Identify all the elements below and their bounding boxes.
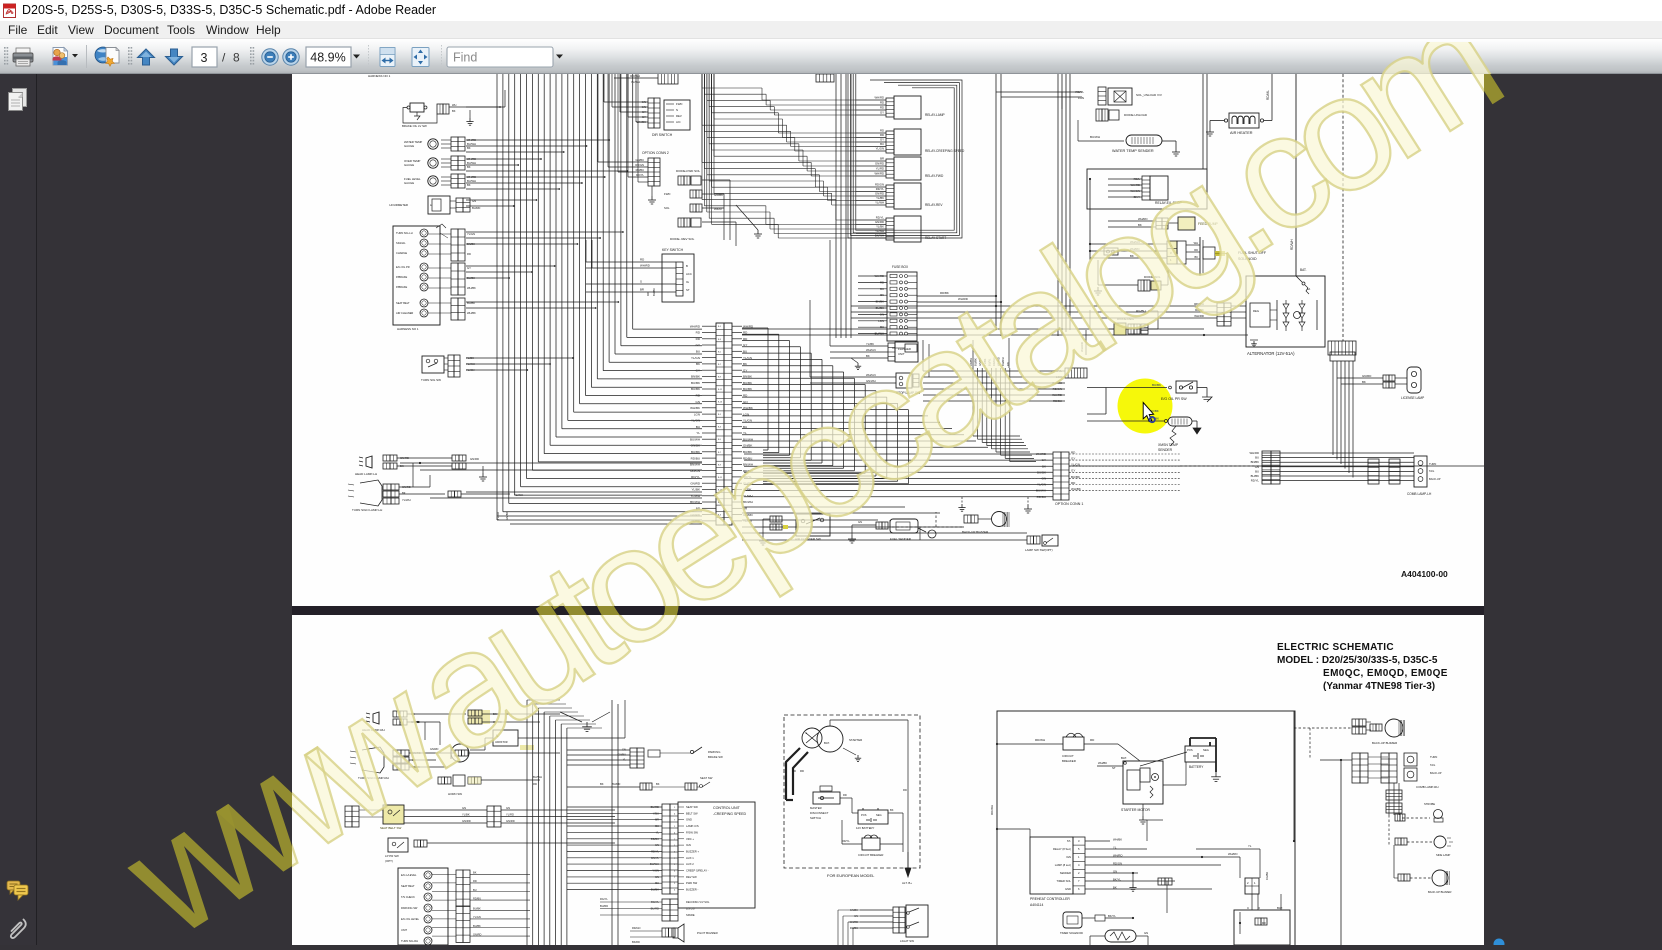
svg-text:BU/WH: BU/WH <box>1090 135 1100 139</box>
svg-text:DIODE-REG: DIODE-REG <box>1117 317 1135 321</box>
svg-text:AUX 2: AUX 2 <box>686 862 694 866</box>
svg-text:8-7: 8-7 <box>718 364 722 366</box>
svg-text:BU: BU <box>696 425 700 429</box>
svg-text:STOP LAMP SW: STOP LAMP SW <box>896 391 920 395</box>
svg-text:YL: YL <box>1248 844 1252 848</box>
svg-text:BRAKE SW: BRAKE SW <box>708 755 723 759</box>
svg-text:BU: BU <box>880 287 884 291</box>
svg-text:RELAY-FWD: RELAY-FWD <box>925 174 944 178</box>
svg-text:7: 7 <box>1078 879 1080 883</box>
svg-text:BK: BK <box>1138 223 1142 227</box>
svg-text:SOL_UNLOAD V/V: SOL_UNLOAD V/V <box>1136 93 1162 97</box>
svg-text:LICENSE LAMP: LICENSE LAMP <box>1401 396 1424 400</box>
svg-text:BK: BK <box>696 362 700 366</box>
svg-text:(OPT): (OPT) <box>385 859 393 863</box>
svg-text:RELAY (8 Sec): RELAY (8 Sec) <box>1053 847 1071 851</box>
svg-text:WH/RD: WH/RD <box>1194 314 1204 318</box>
svg-text:GN/RD: GN/RD <box>978 358 982 366</box>
svg-text:TIMER SOLENOID: TIMER SOLENOID <box>1060 931 1083 935</box>
svg-text:HEAD LAMP-RH: HEAD LAMP-RH <box>362 728 385 732</box>
svg-text:BK: BK <box>452 109 456 113</box>
svg-text:YL/GN: YL/GN <box>876 147 884 151</box>
svg-text:BREAKER: BREAKER <box>1062 759 1076 763</box>
svg-text:VRC +: VRC + <box>686 837 694 841</box>
svg-text:BU/WH: BU/WH <box>875 332 884 336</box>
svg-text:RD/L: RD/L <box>1134 177 1141 181</box>
svg-text:B: B <box>686 264 688 268</box>
svg-text:RD/GN: RD/GN <box>635 163 644 167</box>
svg-text:LGN: LGN <box>1078 96 1084 100</box>
svg-text:RG/BU: RG/BU <box>1136 309 1146 313</box>
svg-text:WH: WH <box>1194 241 1198 245</box>
svg-text:GY: GY <box>880 138 884 142</box>
svg-text:YL/GN: YL/GN <box>473 915 481 919</box>
svg-text:BU/BK: BU/BK <box>652 288 656 296</box>
svg-text:WH/RD: WH/RD <box>1131 183 1140 187</box>
svg-text:GND: GND <box>1065 887 1071 891</box>
svg-text:RD: RD <box>696 331 701 335</box>
svg-text:P/BRAKE: P/BRAKE <box>396 275 408 279</box>
svg-text:WH/RD: WH/RD <box>1228 852 1237 856</box>
svg-text:CIRCUIT BREAKER: CIRCUIT BREAKER <box>858 853 883 857</box>
svg-text:BU/BK: BU/BK <box>473 907 481 911</box>
svg-text:GAUGE: GAUGE <box>404 144 414 148</box>
svg-text:ST: ST <box>686 288 690 292</box>
svg-text:AIR CLEANER: AIR CLEANER <box>396 311 413 315</box>
svg-text:GN/RD: GN/RD <box>875 220 884 224</box>
svg-text:BK: BK <box>467 165 471 169</box>
svg-text:8-5: 8-5 <box>718 439 722 441</box>
svg-text:RD: RD <box>880 101 884 105</box>
svg-text:BAT.: BAT. <box>1277 906 1283 910</box>
svg-text:BACK-UP BUZZER: BACK-UP BUZZER <box>1428 890 1451 894</box>
svg-text:WH/RD: WH/RD <box>1036 452 1047 456</box>
svg-text:GY: GY <box>696 343 700 347</box>
svg-text:GN/BK: GN/BK <box>691 444 700 448</box>
svg-text:BU/BK: BU/BK <box>743 450 752 454</box>
svg-text:YL/RD: YL/RD <box>876 167 884 171</box>
svg-text:GN: GN <box>642 100 646 104</box>
svg-text:GN: GN <box>1144 931 1148 935</box>
svg-text:BK/YL: BK/YL <box>1113 877 1121 881</box>
svg-text:TURN SIG-LH: TURN SIG-LH <box>396 231 413 235</box>
svg-text:LIGHT SW: LIGHT SW <box>900 939 914 943</box>
svg-text:BN/BK: BN/BK <box>691 375 700 379</box>
svg-text:BU: BU <box>880 325 884 329</box>
svg-text:BU/BK: BU/BK <box>691 387 700 391</box>
svg-text:8-13: 8-13 <box>718 490 723 492</box>
svg-text:8-5: 8-5 <box>718 351 722 353</box>
svg-text:BU/YL: BU/YL <box>987 358 991 366</box>
svg-text:POS: POS <box>861 813 867 817</box>
svg-text:GN: GN <box>472 199 476 203</box>
svg-text:TURN SIGN LAMP-RH: TURN SIGN LAMP-RH <box>358 776 389 780</box>
svg-text:E/G OIL PR: E/G OIL PR <box>396 265 410 269</box>
svg-text:FWD: FWD <box>664 192 670 196</box>
svg-text:8-3: 8-3 <box>718 339 722 341</box>
svg-text:YL: YL <box>696 431 700 435</box>
svg-text:RD: RD <box>792 769 796 773</box>
svg-text:GN/RD: GN/RD <box>690 481 701 485</box>
svg-text:RD: RD <box>1262 921 1266 925</box>
svg-text:TURN SIG SW: TURN SIG SW <box>421 378 441 382</box>
svg-text:ALT. B+: ALT. B+ <box>902 881 912 885</box>
svg-text:1: 1 <box>1254 881 1256 885</box>
svg-text:N: N <box>676 108 678 112</box>
svg-text:XMSN TEMP: XMSN TEMP <box>1158 443 1179 447</box>
svg-text:SENDER: SENDER <box>1158 448 1173 452</box>
svg-text:FUSE BOX: FUSE BOX <box>892 265 909 269</box>
svg-text:TIMER SOL: TIMER SOL <box>1057 879 1072 883</box>
svg-text:PILOT BUZZER: PILOT BUZZER <box>697 931 718 935</box>
svg-text:WH/RD: WH/RD <box>875 172 884 176</box>
svg-text:3: 3 <box>1078 839 1080 843</box>
svg-text:BU/WH: BU/WH <box>467 179 476 183</box>
svg-text:WH/BK: WH/BK <box>467 286 476 290</box>
svg-text:RG/BK: RG/BK <box>1265 872 1269 880</box>
svg-text:BK: BK <box>1042 464 1046 468</box>
svg-text:E/G OIL LEVEL: E/G OIL LEVEL <box>401 917 420 921</box>
svg-text:BU/BK: BU/BK <box>651 888 659 892</box>
svg-text:YL/BK: YL/BK <box>876 225 884 229</box>
svg-text:YL/WH: YL/WH <box>402 498 411 502</box>
svg-text:RD/YL: RD/YL <box>1251 479 1260 483</box>
svg-text:BN/BK: BN/BK <box>467 242 475 246</box>
svg-text:GN: GN <box>622 748 626 752</box>
svg-text:6: 6 <box>1078 887 1080 891</box>
svg-text:BACK-UP: BACK-UP <box>1429 477 1441 481</box>
svg-text:BK: BK <box>467 183 471 187</box>
svg-text:RG/YL: RG/YL <box>651 900 660 904</box>
svg-text:BU/RD: BU/RD <box>651 805 659 809</box>
svg-text:2: 2 <box>1247 881 1249 885</box>
svg-text:RELAY-START: RELAY-START <box>925 236 946 240</box>
svg-text:RD: RD <box>1071 450 1076 454</box>
svg-text:GY: GY <box>467 266 471 270</box>
svg-text:EM0QC, EM0QD, EM0QE: EM0QC, EM0QD, EM0QE <box>1323 668 1448 679</box>
svg-text:BATTERY: BATTERY <box>1189 765 1204 769</box>
svg-text:BK/WH: BK/WH <box>875 234 884 238</box>
svg-text:BU/WH: BU/WH <box>1052 381 1062 385</box>
svg-text:RD: RD <box>1194 248 1198 252</box>
svg-text:BU/BK: BU/BK <box>467 301 475 305</box>
svg-text:YL/RD: YL/RD <box>506 813 514 817</box>
svg-text:FEED PUMP: FEED PUMP <box>1198 222 1219 226</box>
svg-text:SOLENOID: SOLENOID <box>1238 257 1257 261</box>
svg-text:REV SW: REV SW <box>686 875 697 879</box>
svg-text:COMB LAMP-LH: COMB LAMP-LH <box>1407 492 1432 496</box>
svg-text:S: S <box>805 731 807 735</box>
svg-text:12V BATTERY: 12V BATTERY <box>856 826 875 830</box>
svg-text:BK: BK <box>1130 254 1134 258</box>
svg-text:RD: RD <box>880 280 884 284</box>
svg-text:Find: Find <box>453 51 477 65</box>
svg-text:YL/WH: YL/WH <box>466 362 475 366</box>
svg-text:BR: BR <box>640 288 644 292</box>
svg-text:48.9%: 48.9% <box>310 51 345 65</box>
svg-text:RD/GN: RD/GN <box>1113 861 1122 865</box>
svg-text:5: 5 <box>1078 847 1080 851</box>
svg-text:N: N <box>496 734 499 738</box>
svg-text:WH/RD: WH/RD <box>1080 342 1084 352</box>
svg-text:BK: BK <box>1362 380 1366 384</box>
svg-text:ACC: ACC <box>686 272 692 276</box>
svg-text:DIODE-FWD SOL: DIODE-FWD SOL <box>676 169 700 173</box>
svg-text:BU/BK: BU/BK <box>1071 475 1080 479</box>
svg-text:RD/YL: RD/YL <box>1053 369 1062 373</box>
svg-text:FUEL SHUT-OFF: FUEL SHUT-OFF <box>1238 251 1267 255</box>
svg-text:8-11: 8-11 <box>718 477 723 479</box>
svg-text:8-11: 8-11 <box>718 389 723 391</box>
svg-text:GN: GN <box>655 875 659 879</box>
svg-text:WH/RD: WH/RD <box>1113 853 1122 857</box>
svg-text:SIDE LAMP: SIDE LAMP <box>1436 853 1451 857</box>
svg-text:BU: BU <box>655 881 659 885</box>
svg-text:RD/BU: RD/BU <box>743 456 752 460</box>
svg-text:LGN: LGN <box>878 319 884 323</box>
svg-text:GN/YL: GN/YL <box>651 856 660 860</box>
svg-text:(Yanmar 4TNE98 Tier-3): (Yanmar 4TNE98 Tier-3) <box>1323 681 1435 692</box>
svg-text:-CREEPING SPEED: -CREEPING SPEED <box>713 812 747 816</box>
svg-text:1: 1 <box>674 883 676 885</box>
svg-text:WH/RD: WH/RD <box>1250 451 1259 455</box>
svg-text:YL/BK: YL/BK <box>743 488 752 492</box>
svg-text:RD: RD <box>640 258 644 262</box>
svg-text:BK/Y: BK/Y <box>1134 195 1141 199</box>
svg-text:WH/BK: WH/BK <box>1071 487 1081 491</box>
svg-text:YL/GN: YL/GN <box>1037 483 1046 487</box>
svg-text:DECONN1 V/V SOL: DECONN1 V/V SOL <box>686 900 710 904</box>
svg-text:TURN SIG-RH: TURN SIG-RH <box>401 939 418 943</box>
svg-text:SWITCH: SWITCH <box>810 816 821 820</box>
svg-text:BU/WH: BU/WH <box>650 862 659 866</box>
svg-text:ST-: ST- <box>1067 839 1071 843</box>
svg-text:RD/WH: RD/WH <box>990 805 994 815</box>
svg-text:OPTION CONN 2: OPTION CONN 2 <box>642 151 669 155</box>
svg-text:RD/GN: RD/GN <box>875 183 884 187</box>
svg-text:BN/BK: BN/BK <box>1251 460 1260 464</box>
svg-text:BU/BK: BU/BK <box>1152 383 1161 387</box>
svg-text:GN/RD: GN/RD <box>875 192 884 196</box>
svg-text:WH/RD: WH/RD <box>958 297 968 301</box>
svg-text:GN: GN <box>462 806 466 810</box>
svg-text:GN: GN <box>1255 465 1259 469</box>
svg-text:E/G L/LEVEL: E/G L/LEVEL <box>401 873 417 877</box>
svg-text:BU: BU <box>696 350 700 354</box>
svg-text:CONTROL UNIT: CONTROL UNIT <box>713 806 741 810</box>
svg-text:8-1: 8-1 <box>718 414 722 416</box>
svg-text:SIGNAL: SIGNAL <box>396 241 406 245</box>
svg-text:GN/RD: GN/RD <box>875 162 884 166</box>
svg-text:A404100-00: A404100-00 <box>1401 569 1448 579</box>
svg-text:RELAY-CREEPING SPEED: RELAY-CREEPING SPEED <box>925 149 965 153</box>
svg-text:RD/GN: RD/GN <box>992 358 996 366</box>
svg-text:RD/YL: RD/YL <box>636 173 644 177</box>
svg-text:RELAY-LAMP: RELAY-LAMP <box>925 113 945 117</box>
svg-text:BU/BK: BU/BK <box>1150 409 1159 413</box>
svg-text:RD: RD <box>473 879 477 883</box>
svg-text:RD/BK: RD/BK <box>651 837 659 841</box>
svg-text:SEAT SW: SEAT SW <box>700 776 713 780</box>
svg-text:GN: GN <box>1113 869 1117 873</box>
svg-text:BK/WH: BK/WH <box>743 500 753 504</box>
svg-text:RD/WH: RD/WH <box>1290 239 1294 250</box>
svg-text:5A: 5A <box>1307 287 1310 291</box>
svg-text:P/BRAKE: P/BRAKE <box>396 285 408 289</box>
svg-text:WH/RD: WH/RD <box>1138 217 1147 221</box>
svg-text:VARISTOR: VARISTOR <box>495 741 508 744</box>
svg-text:GAUGE: GAUGE <box>404 163 414 167</box>
svg-text:BK/YL: BK/YL <box>1108 914 1116 918</box>
svg-text:RD/BU: RD/BU <box>1037 495 1046 499</box>
svg-text:YL: YL <box>623 758 627 762</box>
svg-text:GAUGE: GAUGE <box>404 181 414 185</box>
svg-text:BU/RD: BU/RD <box>472 206 480 210</box>
svg-text:BU/BK: BU/BK <box>1251 474 1260 478</box>
svg-text:STROBE: STROBE <box>1424 802 1435 806</box>
svg-text:LP PR SW: LP PR SW <box>385 854 399 858</box>
svg-text:GN/BU: GN/BU <box>617 753 626 757</box>
svg-text:Y/BU: Y/BU <box>653 811 659 815</box>
svg-text:AIR HEATER: AIR HEATER <box>1230 131 1253 135</box>
svg-text:HOURMETER: HOURMETER <box>389 203 408 207</box>
svg-text:BACK-UP BUZZER: BACK-UP BUZZER <box>1372 741 1397 745</box>
svg-text:BU: BU <box>473 888 477 892</box>
svg-text:HORN SW: HORN SW <box>448 792 462 796</box>
svg-text:GY: GY <box>642 115 646 119</box>
svg-text:RD/GN: RD/GN <box>690 469 700 473</box>
svg-text:S: S <box>640 280 642 284</box>
svg-text:RD: RD <box>646 292 650 296</box>
svg-text:1: 1 <box>674 807 676 809</box>
svg-text:CREEP S/RELAY -: CREEP S/RELAY - <box>686 869 709 873</box>
svg-text:SPARE: SPARE <box>686 913 695 917</box>
svg-text:LGH: LGH <box>1056 375 1062 379</box>
svg-text:GN: GN <box>642 105 646 109</box>
svg-text:GY: GY <box>880 111 884 115</box>
svg-text:YL/BK: YL/BK <box>462 813 470 817</box>
svg-text:RD/ML: RD/ML <box>1266 90 1270 100</box>
svg-text:TURN: TURN <box>1429 462 1436 466</box>
svg-text:RD/GN: RD/GN <box>1053 387 1062 391</box>
svg-text:FLASHER: FLASHER <box>898 347 911 351</box>
svg-text:7: 7 <box>674 877 676 879</box>
svg-text:MODEL : D20/25/30/33S-5, D35C-: MODEL : D20/25/30/33S-5, D35C-5 <box>1277 655 1438 666</box>
svg-text:HARNESS NO 1: HARNESS NO 1 <box>368 74 391 78</box>
svg-text:LAMP (8 sec): LAMP (8 sec) <box>1055 863 1071 867</box>
svg-text:GN/RD: GN/RD <box>743 513 754 517</box>
svg-text:WH/BK: WH/BK <box>467 311 476 315</box>
svg-text:RELAY-E/L STOP: RELAY-E/L STOP <box>1155 201 1182 205</box>
svg-text:DIR SWITCH: DIR SWITCH <box>652 133 673 137</box>
svg-text:YL/BK: YL/BK <box>866 342 874 346</box>
svg-text:RD/BU: RD/BU <box>691 456 700 460</box>
svg-text:GY: GY <box>642 110 646 114</box>
svg-text:UNIT: UNIT <box>898 352 905 356</box>
svg-text:BU/WH: BU/WH <box>690 437 700 441</box>
svg-text:YL/BK: YL/BK <box>691 488 700 492</box>
svg-text:PREHEAT CONTROLLER: PREHEAT CONTROLLER <box>1030 897 1070 901</box>
svg-text:BU/BK: BU/BK <box>691 381 700 385</box>
svg-text:COMB LAMP-RH: COMB LAMP-RH <box>1416 785 1438 789</box>
svg-text:RD/BU: RD/BU <box>636 168 644 172</box>
svg-text:BU/BK: BU/BK <box>1037 470 1046 474</box>
svg-text:BAT.: BAT. <box>1300 268 1307 272</box>
svg-text:BU/WH: BU/WH <box>467 161 476 165</box>
svg-text:RD/BK: RD/BK <box>940 291 949 295</box>
svg-text:RELAY-REV: RELAY-REV <box>925 203 943 207</box>
svg-text:E/G OIL PR SW: E/G OIL PR SW <box>1161 397 1187 401</box>
svg-text:GN: GN <box>1042 477 1047 481</box>
svg-text:8-3: 8-3 <box>718 427 722 429</box>
svg-text:WH/RD: WH/RD <box>1052 393 1062 397</box>
svg-text:BK: BK <box>402 491 406 495</box>
svg-text:BELT SW: BELT SW <box>686 811 698 815</box>
svg-text:GND: GND <box>686 818 692 822</box>
svg-text:RD/YL: RD/YL <box>876 216 885 220</box>
svg-text:YL/GN: YL/GN <box>691 356 700 360</box>
svg-text:YL/WH: YL/WH <box>690 494 700 498</box>
svg-text:GY: GY <box>1042 458 1046 462</box>
svg-text:RD: RD <box>880 133 884 137</box>
svg-text:FWD SW: FWD SW <box>686 881 698 885</box>
svg-text:GN: GN <box>858 520 862 524</box>
svg-text:4: 4 <box>674 813 676 815</box>
svg-text:RD: RD <box>843 793 847 797</box>
svg-text:TURN SIGN LAMP-LH: TURN SIGN LAMP-LH <box>352 508 382 512</box>
svg-text:BU/BK: BU/BK <box>876 306 885 310</box>
svg-text:HEAD LAMP-LH: HEAD LAMP-LH <box>355 472 377 476</box>
svg-text:WH/RD: WH/RD <box>467 175 476 179</box>
svg-text:LAMP SW SW(OPT): LAMP SW SW(OPT) <box>1025 548 1053 552</box>
svg-text:BK: BK <box>890 808 894 812</box>
svg-text:DIODE- REV SOL: DIODE- REV SOL <box>670 237 695 241</box>
svg-text:GN/RD: GN/RD <box>506 819 515 823</box>
svg-text:STARTER: STARTER <box>849 738 862 742</box>
svg-text:CHARGE: CHARGE <box>396 251 407 255</box>
svg-text:BK: BK <box>467 146 471 150</box>
svg-text:YL/GN: YL/GN <box>466 368 474 372</box>
svg-text:PARKING: PARKING <box>708 750 720 754</box>
svg-text:WH/GN: WH/GN <box>866 373 876 377</box>
svg-text:SEAT BELT SW: SEAT BELT SW <box>380 826 401 830</box>
svg-text:GN/WH: GN/WH <box>866 379 876 383</box>
svg-text:RD/WH: RD/WH <box>1035 738 1045 742</box>
svg-text:GN/BK: GN/BK <box>1150 417 1159 421</box>
svg-text:WH/RD: WH/RD <box>1130 247 1139 251</box>
svg-text:8-3: 8-3 <box>718 515 722 517</box>
svg-text:RD/YL: RD/YL <box>1075 90 1084 94</box>
svg-text:RD/YL: RD/YL <box>876 187 885 191</box>
svg-text:2: 2 <box>1078 871 1080 875</box>
svg-text:KEY SWITCH: KEY SWITCH <box>662 248 684 252</box>
svg-text:YL/WH: YL/WH <box>514 493 523 497</box>
svg-text:BU: BU <box>880 142 884 146</box>
svg-text:LGN: LGN <box>694 412 700 416</box>
svg-text:1: 1 <box>1078 855 1080 859</box>
svg-text:BACK-UP BUZZER: BACK-UP BUZZER <box>962 530 989 534</box>
svg-text:BU/BK: BU/BK <box>473 924 481 928</box>
svg-text:A/C: A/C <box>676 120 681 124</box>
svg-text:BK: BK <box>656 782 660 786</box>
svg-text:A404114: A404114 <box>1030 903 1043 907</box>
svg-text:WH/RD: WH/RD <box>875 274 884 278</box>
svg-text:P/SW SW: P/SW SW <box>686 830 698 834</box>
svg-text:8-9: 8-9 <box>718 464 722 466</box>
svg-text:NEG: NEG <box>876 813 882 817</box>
svg-text:BUZZER -: BUZZER - <box>686 888 698 892</box>
svg-text:4: 4 <box>1078 863 1080 867</box>
